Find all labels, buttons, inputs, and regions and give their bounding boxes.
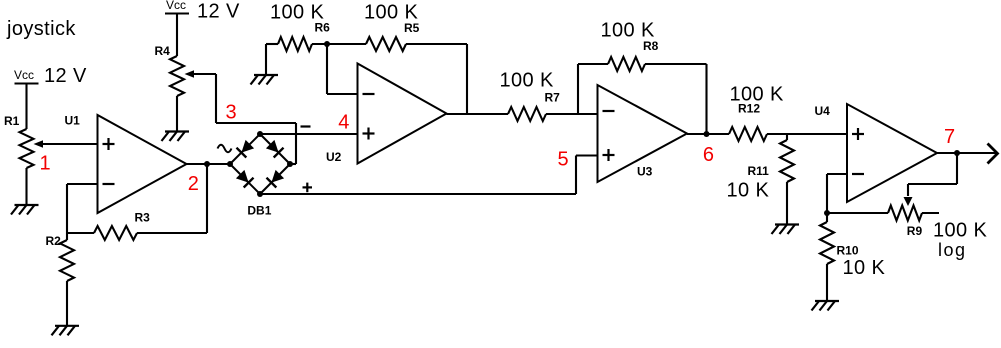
wire: [645, 63, 707, 65]
resistor R5: [366, 37, 406, 51]
resistor R3: [94, 226, 137, 240]
label ~ AC terminal: [218, 145, 232, 153]
node 3 wiper arrow: [185, 70, 195, 78]
wire: [206, 164, 208, 233]
wire: [67, 183, 98, 185]
ground: [815, 300, 839, 302]
svg-text:100 K: 100 K: [933, 220, 988, 242]
wire: [137, 232, 207, 234]
svg-text:R1: R1: [4, 114, 20, 128]
wire: [265, 44, 267, 75]
wire: [576, 154, 598, 156]
junction node 6: [704, 131, 710, 137]
wire: [786, 182, 788, 224]
wire: [546, 113, 598, 115]
svg-text:Vcc: Vcc: [166, 0, 186, 12]
svg-text:joystick: joystick: [6, 18, 76, 40]
node 1 wiper arrow: [34, 140, 44, 148]
resistor R6: [278, 37, 312, 51]
ground: [15, 204, 39, 206]
ground: [55, 325, 79, 327]
op-amp U2: [358, 64, 447, 164]
ground: [775, 223, 799, 225]
wire: [687, 133, 729, 135]
wire: [826, 174, 828, 213]
wire: [826, 264, 828, 301]
wire: [447, 113, 509, 115]
label + terminal: [303, 186, 313, 188]
wire: [956, 153, 958, 184]
svg-text:U2: U2: [326, 150, 342, 164]
wire: [922, 212, 939, 214]
wire: [266, 43, 278, 45]
svg-text:12 V: 12 V: [44, 65, 87, 87]
ground: [165, 130, 189, 132]
junction bridge right: [287, 161, 293, 167]
svg-text:U3: U3: [637, 165, 653, 179]
svg-text:100 K: 100 K: [500, 70, 555, 92]
resistor R11: [780, 140, 794, 182]
svg-text:log: log: [938, 240, 967, 260]
op-amp U3: [598, 85, 688, 182]
svg-text:R2: R2: [46, 234, 62, 248]
diode bridge DB1 - diode top-right: [260, 134, 290, 164]
svg-text:4: 4: [338, 112, 349, 134]
wire: [215, 74, 217, 123]
wire: [466, 44, 468, 114]
svg-text:R11: R11: [748, 164, 770, 178]
output arrow node 7: [988, 144, 998, 164]
op-amp U4: [847, 104, 937, 202]
svg-text:6: 6: [703, 144, 714, 166]
wire: [176, 96, 178, 131]
label - terminal: [301, 125, 311, 127]
junction R9/R10/U4-: [824, 210, 830, 216]
wire: [295, 123, 297, 164]
svg-text:12 V: 12 V: [197, 1, 240, 23]
wire: [25, 84, 27, 130]
wire: [66, 281, 68, 326]
resistor R2: [60, 240, 74, 281]
wire: [290, 163, 296, 165]
svg-text:R9: R9: [907, 224, 923, 238]
svg-text:R4: R4: [155, 44, 171, 58]
wire: [705, 64, 707, 134]
potentiometer R9: [888, 206, 922, 221]
svg-text:10 K: 10 K: [843, 257, 886, 279]
svg-text:7: 7: [944, 126, 955, 148]
potentiometer R4: [170, 56, 184, 96]
junction bridge top (-): [257, 131, 263, 137]
wire: [578, 63, 608, 65]
resistor R8: [608, 57, 645, 71]
wire: [260, 133, 358, 135]
svg-text:Vcc: Vcc: [14, 68, 34, 82]
svg-text:DB1: DB1: [247, 204, 271, 218]
wire: [577, 64, 579, 114]
svg-text:100 K: 100 K: [364, 2, 419, 24]
wire: [66, 184, 68, 233]
wire: [406, 43, 467, 45]
wire: [187, 163, 231, 165]
resistor R12: [729, 127, 767, 141]
svg-text:R3: R3: [135, 211, 151, 225]
svg-text:1: 1: [40, 153, 51, 175]
svg-text:2: 2: [188, 173, 199, 195]
svg-text:U1: U1: [65, 114, 81, 128]
wire: [327, 93, 358, 95]
ground: [254, 74, 278, 76]
wire: [67, 232, 94, 234]
diode bridge DB1 - diode bottom-right: [260, 164, 290, 194]
diode bridge DB1 - diode bottom-left: [230, 164, 260, 194]
svg-text:R10: R10: [837, 244, 859, 258]
junction node 7: [954, 150, 960, 156]
svg-text:U4: U4: [815, 104, 831, 118]
wire: [827, 212, 888, 214]
svg-text:100 K: 100 K: [601, 20, 656, 42]
wire: [176, 14, 178, 57]
wire: [25, 168, 27, 205]
wire: [326, 44, 328, 94]
svg-text:3: 3: [226, 101, 237, 123]
junction bridge bottom (+): [257, 191, 263, 197]
svg-text:100 K: 100 K: [270, 2, 325, 24]
diode bridge DB1 - diode top-left: [230, 134, 260, 164]
op-amp U1: [98, 115, 187, 213]
wire: [767, 133, 847, 135]
svg-text:100 K: 100 K: [730, 84, 785, 106]
resistor R10: [820, 222, 834, 264]
wire: [312, 43, 366, 45]
wire: [216, 122, 296, 124]
svg-text:5: 5: [558, 149, 569, 171]
junction R6/R5: [324, 41, 330, 47]
wire: [260, 193, 576, 195]
svg-text:R7: R7: [545, 91, 561, 105]
wire: [937, 152, 996, 154]
junction node 2: [204, 161, 210, 167]
wire: [827, 173, 847, 175]
junction bridge left (~): [227, 161, 233, 167]
potentiometer R1: [20, 129, 34, 168]
resistor R7: [508, 107, 546, 121]
R9 wiper arrow: [907, 184, 909, 196]
wire: [575, 156, 577, 195]
svg-text:10 K: 10 K: [727, 180, 770, 202]
wire: [908, 183, 957, 185]
